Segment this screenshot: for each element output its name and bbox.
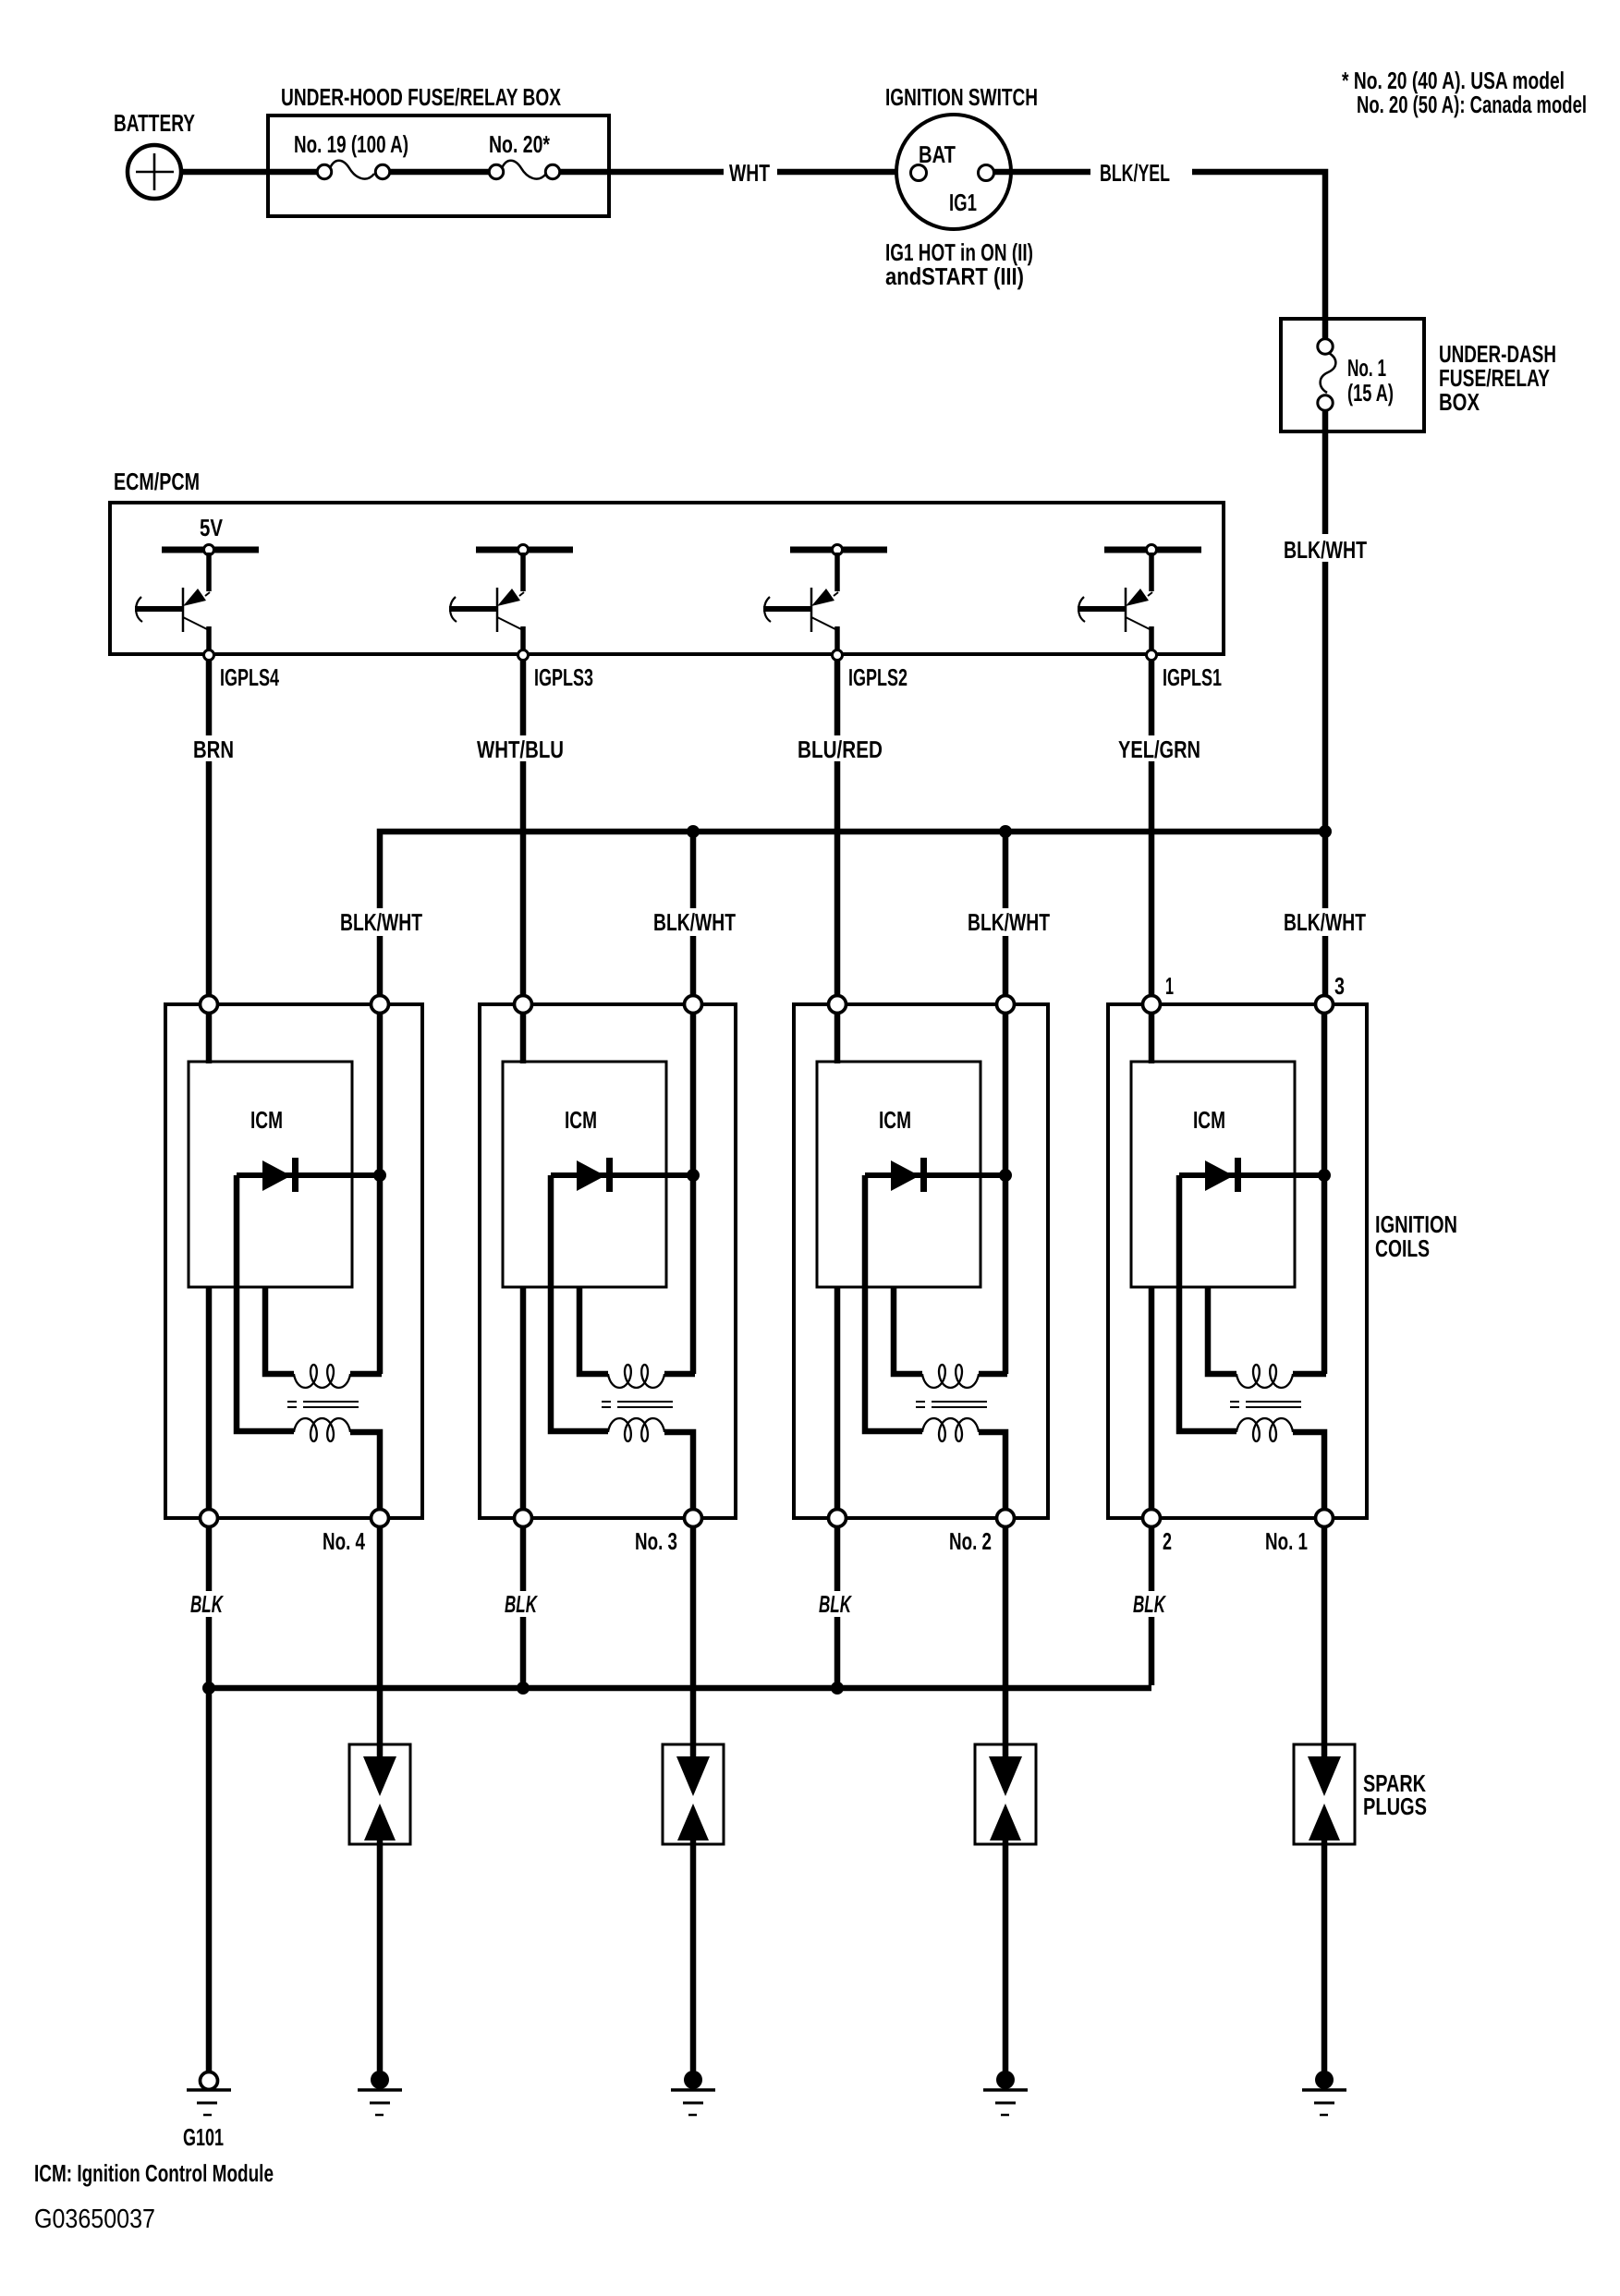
wire ground bus to G101 [206,1688,213,2073]
wire bus to coil No.2 right pin [1003,832,1009,996]
ignition coil No. 4 outer box [165,1004,422,1518]
node IGPLS1 pin [1147,650,1157,661]
ground terminal (plug P3) [996,2071,1015,2089]
svg-text:IGPLS3: IGPLS3 [534,663,593,691]
wire spark plug P4 to ground [1322,1839,1328,2075]
junction ground bus x226 [202,1682,215,1695]
coil No. 2 bottom-left pin [829,1510,847,1527]
ignition coil No. 3 outer box [480,1004,736,1518]
svg-text:BAT: BAT [919,140,956,168]
wire coil No. 3 top-left pin to ICM [520,1014,527,1063]
wire coil No. 2 bottom-left pin to ground bus (BLK) [834,1526,841,1688]
wire coil No. 3 to spark plug P2 [690,1526,697,1761]
fuse No.20 [489,161,559,179]
ignition switch SW1 [896,115,1011,229]
ground symbol (plug P4) [1302,2090,1346,2115]
svg-text:YEL/GRN: YEL/GRN [1118,735,1200,763]
junction ground bus x566 [517,1682,530,1695]
ECM/PCM box [110,503,1224,654]
label BLK (4) [1130,1590,1175,1618]
node 5V Q3 [833,545,843,555]
wire IGPLS3 to coil (WHT/BLU) [520,660,527,996]
svg-text:BLK/WHT: BLK/WHT [340,908,422,936]
wire top-right pin down to primary (coil No. 4) [377,1014,384,1374]
wire diode anode to secondary (coil No. 4) [237,1175,294,1431]
svg-text:PLUGS: PLUGS [1363,1792,1427,1820]
ICM box (coil No. 3) [503,1062,666,1287]
label BLK (3) [816,1590,860,1618]
node 5V Q1 [204,545,214,555]
node 5V Q4 [1147,545,1157,555]
wire top-right pin down to primary (coil No. 3) [690,1014,697,1374]
junction diode cathode to BLK/WHT (coil No. 3) [687,1169,700,1182]
wire ICM to bottom-left pin (coil No. 1) [1149,1287,1155,1510]
wire IGPLS1 to coil (YEL/GRN) [1149,660,1155,996]
label BRN [188,735,239,763]
BLK/WHT bus wire [380,832,1325,996]
secondary winding L4b [1236,1418,1293,1441]
label BLK/WHT (branch 2) [648,908,741,936]
wire secondary to bottom-right pin (coil No. 3) [664,1432,693,1510]
wire bus to coil No.3 right pin [690,832,697,996]
secondary winding L2b [608,1418,664,1441]
svg-text:BLK: BLK [1133,1590,1166,1618]
wire primary to right pin wire (coil No. 2) [979,1371,1007,1378]
wire fuse 19 to fuse 20 [390,169,491,176]
transformer core (coil No. 3) [602,1402,673,1407]
wire coil No. 4 bottom-left pin to ground bus (BLK) [206,1526,213,1688]
coil No. 1 bottom-left pin [1143,1510,1161,1527]
svg-text:BOX: BOX [1439,388,1480,416]
wire under-dash box to coils (BLK/WHT) [1322,410,1329,996]
transistor Q3 (PNP driver) [763,553,838,651]
note No. 20 fuse models [1342,67,1587,118]
svg-text:ICM: ICM [879,1106,911,1134]
label BLU/RED [792,735,888,763]
wire ICM to bottom-left pin (coil No. 4) [206,1287,213,1510]
svg-text:ICM: ICM [565,1106,597,1134]
svg-text:UNDER-HOOD FUSE/RELAY BOX: UNDER-HOOD FUSE/RELAY BOX [281,83,561,111]
diode D4 (coil No. 1) [1179,1158,1324,1192]
wire ICM to primary winding (coil No. 1) [1208,1287,1236,1374]
svg-text:No. 4: No. 4 [323,1527,365,1555]
svg-text:BLK: BLK [190,1590,224,1618]
label SPARK PLUGS [1363,1769,1427,1820]
fuse No.1 (15 A) [1318,339,1336,410]
svg-text:BLK/YEL: BLK/YEL [1100,159,1170,187]
ground terminal (plug P4) [1315,2071,1334,2089]
wire IGPLS4 to coil (BRN) [206,660,213,996]
coil No. 2 top-right pin [997,996,1015,1014]
ground bus wire [209,1685,1151,1692]
svg-text:IG1: IG1 [949,188,977,216]
wire secondary to bottom-right pin (coil No. 2) [979,1432,1005,1510]
svg-text:COILS: COILS [1375,1234,1430,1262]
svg-text:5V: 5V [200,514,224,541]
svg-text:ICM: Ignition Control Module: ICM: Ignition Control Module [34,2159,274,2187]
svg-text:1: 1 [1165,972,1174,1000]
5V supply bar for Q2 [476,547,573,553]
node IGPLS3 pin [518,650,529,661]
battery B1 [128,145,181,199]
junction bus x1434 [1319,825,1332,838]
wire top-right pin down to primary (coil No. 1) [1322,1014,1328,1374]
svg-text:No. 20*: No. 20* [489,130,551,158]
svg-text:No. 1: No. 1 [1265,1527,1308,1555]
ground terminal (plug P2) [684,2071,702,2089]
coil No. 3 top-right pin [685,996,702,1014]
primary winding L4a [1236,1365,1293,1388]
coil No. 2 top-left pin [829,996,847,1014]
node IGPLS2 pin [833,650,843,661]
ignition coil No. 2 outer box [794,1004,1048,1518]
wire coil No. 4 to spark plug P1 [377,1526,384,1761]
label BLK/WHT (branch 4) [1278,908,1371,936]
wire coil No. 1 to spark plug P4 [1322,1526,1328,1761]
wire spark plug P1 to ground [377,1839,384,2075]
svg-text:IGNITION SWITCH: IGNITION SWITCH [885,83,1038,111]
label BLK/WHT (branch 1) [335,908,428,936]
wire diode anode to secondary (coil No. 1) [1179,1175,1236,1431]
label No. 1 (15 A) [1347,354,1394,407]
svg-text:No. 3: No. 3 [635,1527,677,1555]
5V supply bar for Q1 [162,547,259,553]
svg-text:BATTERY: BATTERY [114,109,195,137]
svg-text:ECM/PCM: ECM/PCM [114,468,200,495]
svg-text:WHT: WHT [729,159,770,187]
svg-text:BLU/RED: BLU/RED [798,735,883,763]
svg-text:BLK/WHT: BLK/WHT [653,908,736,936]
label BLK/WHT (vertical feed) [1279,534,1371,564]
label WHT [724,159,777,187]
wire primary to right pin wire (coil No. 3) [664,1371,695,1378]
junction diode cathode to BLK/WHT (coil No. 2) [999,1169,1012,1182]
junction diode cathode to BLK/WHT (coil No. 1) [1318,1169,1331,1182]
5V supply bar for Q4 [1104,547,1201,553]
coil No. 1 bottom-right pin [1316,1510,1334,1527]
node IGPLS4 pin [204,650,214,661]
wire coil No. 2 top-left pin to ICM [834,1014,841,1063]
spark plug P1 [349,1744,410,1844]
coil No. 3 bottom-right pin [685,1510,702,1527]
coil No. 1 top-right pin [1316,996,1334,1014]
wire coil No. 3 bottom-left pin to ground bus (BLK) [520,1526,527,1688]
wire secondary to bottom-right pin (coil No. 1) [1293,1432,1324,1510]
ground symbol (plug P3) [983,2090,1028,2115]
junction bus x1088 [999,825,1012,838]
transistor Q1 (PNP driver) [135,553,210,651]
svg-text:IGPLS1: IGPLS1 [1163,663,1222,691]
transformer core (coil No. 4) [287,1402,359,1407]
svg-text:BLK: BLK [505,1590,538,1618]
svg-text:BLK/WHT: BLK/WHT [1284,536,1367,564]
svg-text:ICM: ICM [250,1106,283,1134]
diode D2 (coil No. 3) [551,1158,693,1192]
diode D1 (coil No. 4) [237,1158,380,1192]
wire spark plug P3 to ground [1003,1839,1009,2075]
svg-text:BRN: BRN [193,735,234,763]
5V supply bar for Q3 [790,547,887,553]
wire ICM to primary winding (coil No. 3) [579,1287,608,1374]
coil No. 3 bottom-left pin [515,1510,532,1527]
label IGNITION COILS [1375,1210,1457,1262]
primary winding L1a [294,1365,350,1388]
svg-text:G101: G101 [183,2123,224,2151]
wire diode anode to secondary (coil No. 2) [865,1175,922,1431]
svg-text:No. 19 (100 A): No. 19 (100 A) [294,130,408,158]
wire diode anode to secondary (coil No. 3) [551,1175,608,1431]
primary winding L2a [608,1365,664,1388]
coil No. 4 bottom-right pin [372,1510,389,1527]
svg-text:No. 1: No. 1 [1347,354,1386,382]
transistor Q2 (PNP driver) [449,553,524,651]
ground symbol G101 [187,2090,231,2115]
wire coil No. 1 bottom-left pin to ground bus (BLK) [1149,1526,1155,1685]
wire IGPLS2 to coil (BLU/RED) [834,660,841,996]
primary winding L3a [922,1365,979,1388]
ICM box (coil No. 2) [817,1062,981,1287]
node 5V Q2 [518,545,529,555]
ignition coil No. 1 outer box [1108,1004,1367,1518]
ICM box (coil No. 1) [1131,1062,1295,1287]
wire coil No. 4 top-left pin to ICM [206,1014,213,1063]
spark plug P2 [663,1744,724,1844]
spark plug P3 [975,1744,1036,1844]
label YEL/GRN [1113,735,1206,763]
wire ignition switch to under-dash box (BLK/YEL) [994,172,1325,340]
wire primary to right pin wire (coil No. 4) [350,1371,382,1378]
svg-text:No. 20 (50 A): Canada model: No. 20 (50 A): Canada model [1357,91,1587,118]
label BLK (2) [502,1590,546,1618]
under-hood fuse/relay box [268,115,609,216]
spark plug P4 [1294,1744,1355,1844]
coil No. 4 top-left pin [201,996,218,1014]
transformer core (coil No. 2) [916,1402,987,1407]
junction diode cathode to BLK/WHT (coil No. 4) [373,1169,386,1182]
secondary winding L1b [294,1418,350,1441]
ground terminal (plug P1) [371,2071,389,2089]
svg-text:G03650037: G03650037 [34,2205,155,2234]
coil No. 4 bottom-left pin [201,1510,218,1527]
label BLK/YEL [1090,159,1192,187]
wire spark plug P2 to ground [690,1839,697,2075]
fuse No.19 (100 A) [317,161,389,179]
note IG1 HOT in ON [885,238,1033,290]
svg-text:(15 A): (15 A) [1347,379,1394,407]
svg-text:ICM: ICM [1193,1106,1225,1134]
junction ground bus x906 [831,1682,844,1695]
secondary winding L3b [922,1418,979,1441]
wire ICM to primary winding (coil No. 4) [265,1287,294,1374]
svg-text:WHT/BLU: WHT/BLU [477,735,564,763]
svg-text:IGPLS2: IGPLS2 [848,663,907,691]
label WHT/BLU [471,735,569,763]
wire ICM to primary winding (coil No. 2) [894,1287,922,1374]
coil No. 2 bottom-right pin [997,1510,1015,1527]
ground symbol (plug P1) [358,2090,402,2115]
wire battery to under-hood fuse box [181,169,320,176]
ICM box (coil No. 4) [189,1062,352,1287]
wire ICM to bottom-left pin (coil No. 2) [834,1287,841,1510]
transformer core (coil No. 1) [1230,1402,1301,1407]
label BLK (1) [188,1590,232,1618]
svg-text:BLK/WHT: BLK/WHT [1284,908,1366,936]
coil No. 3 top-left pin [515,996,532,1014]
svg-text:andSTART (III): andSTART (III) [885,262,1024,290]
under-dash fuse/relay box [1281,319,1424,431]
wire primary to right pin wire (coil No. 1) [1293,1371,1326,1378]
svg-text:2: 2 [1163,1527,1172,1555]
svg-text:BLK: BLK [819,1590,852,1618]
junction bus x750 [687,825,700,838]
diode D3 (coil No. 2) [865,1158,1005,1192]
svg-text:BLK/WHT: BLK/WHT [968,908,1050,936]
label BLK/WHT (branch 3) [962,908,1055,936]
wire top-right pin down to primary (coil No. 2) [1003,1014,1009,1374]
wire fuse box to ignition switch (WHT) [560,169,911,176]
ground G101 terminal [201,2072,218,2090]
ground symbol (plug P2) [671,2090,715,2115]
svg-text:No. 2: No. 2 [949,1527,992,1555]
wire coil No. 2 to spark plug P3 [1003,1526,1009,1761]
wire secondary to bottom-right pin (coil No. 4) [350,1432,380,1510]
label UNDER-DASH FUSE/RELAY BOX [1439,340,1556,416]
coil No. 1 top-left pin [1143,996,1161,1014]
svg-text:3: 3 [1334,972,1345,1000]
svg-text:IGPLS4: IGPLS4 [220,663,279,691]
transistor Q4 (PNP driver) [1078,553,1152,651]
wire ICM to bottom-left pin (coil No. 3) [520,1287,527,1510]
wire coil No. 1 top-left pin to ICM [1149,1014,1155,1063]
coil No. 4 top-right pin [372,996,389,1014]
